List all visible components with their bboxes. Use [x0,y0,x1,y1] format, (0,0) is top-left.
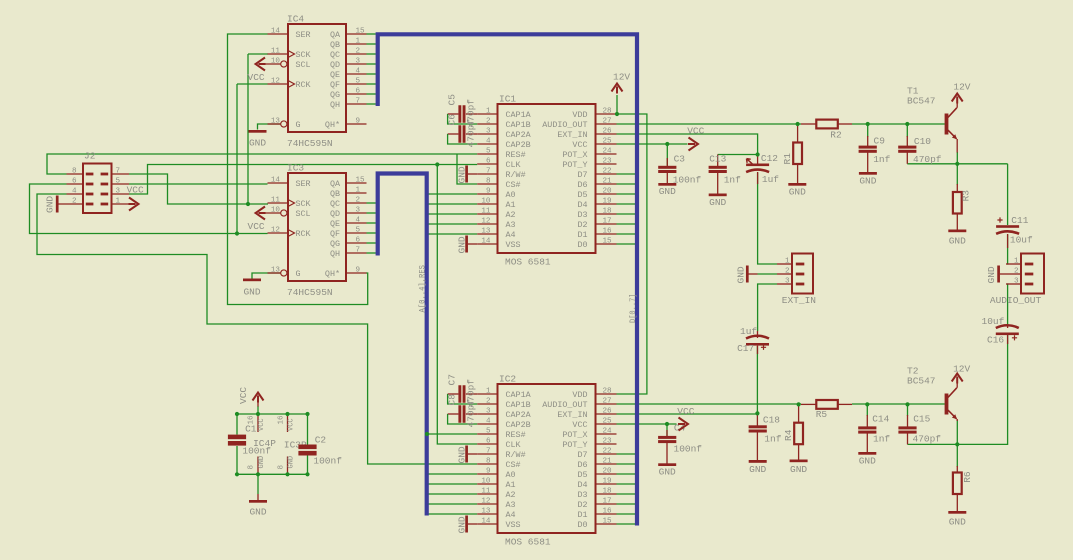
transistor T1 emitter with arrow [948,130,957,139]
svg-text:MOS 6581: MOS 6581 [505,537,551,548]
pin 20 of IC1 [596,193,617,195]
contact dash pin 2 of EXT_IN [796,273,805,276]
svg-text:470pf: 470pf [466,399,477,428]
junction C9 node [866,122,870,126]
svg-text:20: 20 [603,187,613,195]
ground bar at G of IC4 [249,130,267,133]
ground bar below R3 [948,230,966,233]
capacitor C2 plates [298,445,316,456]
pin 22 of IC1 [596,173,617,175]
svg-text:CS#: CS# [506,460,521,470]
capacitor C3 bottom lead [666,172,668,183]
resistor R2 right lead [838,123,852,125]
junction C15 node [905,402,909,406]
svg-text:3: 3 [356,57,361,65]
supply VCC arrow at J2 pin1 [129,198,139,211]
svg-text:R5: R5 [816,409,828,420]
pin 12 of IC1 [477,223,497,225]
supply VCC arrow at IC1 VCC [688,138,698,151]
capacitor C15 plates [898,426,916,433]
svg-text:GND: GND [249,138,266,149]
svg-text:VCC: VCC [572,420,587,430]
pin 2 of J2 [59,203,84,205]
capacitor C16 bottom lead [1007,335,1009,344]
svg-text:RCK: RCK [296,80,312,90]
wire C2 bottom branch [307,456,309,475]
svg-text:1uf: 1uf [740,326,757,337]
svg-text:15: 15 [356,27,366,35]
wire C5 wrap to next pin [448,114,478,124]
svg-text:15: 15 [356,176,366,184]
wire IC4 QD to D bus [367,63,376,65]
wire IC1 D5 to D bus [617,193,636,195]
svg-text:A4: A4 [506,510,516,520]
wire IC2 D7 to D bus [617,453,636,455]
svg-text:22: 22 [603,167,613,175]
wire AUDIO_OUT pin2 to ground bar [1000,273,1006,275]
junction power VCC rail x=287.5 [285,412,289,416]
svg-text:4: 4 [486,137,491,145]
svg-text:470pf: 470pf [466,119,477,148]
pin 17 of IC2 [596,503,617,505]
resistor R6 top lead [956,466,958,473]
pin 5 of IC3 [346,232,367,234]
svg-text:100nf: 100nf [674,443,703,454]
contact dash pin 1 of EXT_IN [796,263,805,266]
wire C12 bottom to EXT_IN pin1 [758,173,777,265]
pin 4 of IC2 [477,423,497,425]
capacitor C9 bottom lead [867,152,869,172]
resistor R1 bottom lead [797,164,799,183]
ground bar at VSS of IC1 [465,236,468,253]
svg-text:A3: A3 [506,500,516,510]
svg-text:A[0..4],RES: A[0..4],RES [418,265,428,313]
svg-text:D7: D7 [577,450,587,460]
svg-text:25: 25 [603,137,613,145]
plus mark of C16 [1012,335,1017,340]
wire C9 node riser [867,124,869,137]
pin 24 of IC2 [596,433,617,435]
wire A bus to IC1 A4 [429,233,478,235]
capacitor C17 polarized plates [746,336,769,346]
inversion bubble SCL of IC4 [281,61,287,67]
pin 9 of IC2 [477,473,497,475]
svg-text:1: 1 [356,186,361,194]
svg-text:12: 12 [481,217,491,225]
ground bar below C14 [858,452,876,455]
wire A bus to IC1 A1 [429,203,478,205]
svg-text:VCC: VCC [248,221,265,232]
svg-text:7: 7 [116,167,121,175]
wire C10 node riser [906,124,908,137]
wire IC1 D3 to D bus [617,213,636,215]
svg-text:GND: GND [749,464,766,475]
supply 12V arrow at IC1 VDD [612,84,623,94]
svg-text:A1: A1 [506,480,516,490]
resistor R5 left lead [801,403,816,405]
svg-text:A4: A4 [506,230,516,240]
ground bar at R/W# of IC2 [465,446,468,463]
svg-text:15: 15 [603,237,613,245]
wire IC2 D3 to D bus [617,493,636,495]
resistor R3 top lead [956,184,958,192]
svg-text:CAP1B: CAP1B [506,400,531,410]
svg-text:1: 1 [116,197,121,205]
resistor R3 bottom lead [956,214,958,230]
svg-text:4: 4 [486,417,491,425]
svg-text:D6: D6 [577,460,587,470]
connector J2 body [83,164,112,214]
pin 5 of J2 [112,183,130,185]
pin 15 of IC3 [346,182,367,184]
clock triangle RCK of IC4 [288,81,295,88]
svg-text:19: 19 [603,197,613,205]
junction CLK net at IC1 [435,162,439,166]
svg-text:GND: GND [790,464,807,475]
ground bar below R4 [790,460,808,463]
bus A[0..4],RES from IC3 outputs to SID address pins [378,174,427,516]
svg-text:C1: C1 [245,424,257,435]
wire net AUDIO1: IC1 AUDIO_OUT to R2 [617,123,802,125]
wire IC1 D7 to D bus [617,173,636,175]
resistor R4 bottom lead [798,444,800,459]
svg-text:10: 10 [481,197,491,205]
pin 14 of IC1 [477,243,497,245]
svg-text:2: 2 [486,117,491,125]
wire A bus RES to IC2 RES# [427,433,477,435]
pin 11 of IC1 [477,213,497,215]
svg-text:RES#: RES# [506,430,526,440]
capacitor C16 polarized plates [996,325,1019,335]
contact dashes row y=194 of J2 [86,193,108,196]
svg-text:R6: R6 [962,471,973,483]
svg-text:R2: R2 [830,129,842,140]
capacitor C12 bottom lead [757,172,759,184]
pin 3 of IC1 [477,133,497,135]
ground bar at G of IC3 [243,279,261,282]
capacitor C5 plates [458,105,465,123]
wire EXT_IN pin2 to GND bar [749,273,758,275]
pin 4 of IC1 [477,143,497,145]
svg-text:3: 3 [356,206,361,214]
junction C14 node [865,402,869,406]
plus mark of C12 [747,159,754,165]
ground bar below C9 [859,172,877,175]
ground bar at EXT_IN pin2 [746,266,749,283]
svg-text:14: 14 [271,176,281,184]
svg-text:GND: GND [949,236,966,247]
svg-text:18: 18 [603,487,613,495]
svg-text:16: 16 [278,415,286,425]
wire net EXT1: C13 top link [718,154,758,156]
wire T1 collector to 12V arrow [956,104,958,108]
capacitor C3 top lead [666,158,668,166]
resistor R5 body [816,400,838,409]
svg-text:16: 16 [603,507,613,515]
svg-text:VDD: VDD [572,110,587,120]
svg-text:C9: C9 [874,135,886,146]
svg-text:CAP2B: CAP2B [506,420,531,430]
pin 26 of IC1 [596,133,617,135]
capacitor C14 plates [858,426,876,433]
svg-text:6: 6 [486,437,491,445]
pin 4 of J2 [67,193,84,195]
resistor R6 bottom lead [956,494,958,511]
wire IC4 QE to D bus [367,73,376,75]
pin 1 of IC1 [477,113,497,115]
svg-text:100nf: 100nf [673,175,702,186]
svg-text:D5: D5 [577,190,587,200]
svg-text:8: 8 [278,465,286,470]
svg-text:GND: GND [457,166,468,183]
capacitor C12 polarized plates [746,164,769,173]
wire A bus to IC1 A3 [429,223,478,225]
svg-text:R3: R3 [961,190,972,202]
plus mark of C17 [761,345,766,350]
inversion bubble G of IC4 [281,121,287,127]
pin 5 of IC2 [477,433,497,435]
svg-text:A0: A0 [506,190,516,200]
junction power GND rail x=307.5 [305,472,309,476]
svg-text:POT_X: POT_X [562,150,587,160]
wire IC4 QC to D bus [367,53,376,55]
svg-text:IC1: IC1 [499,94,516,105]
svg-text:9: 9 [486,467,491,475]
wire IC1 D4 to D bus [617,203,636,205]
svg-text:C6: C6 [447,114,458,126]
pin 7 of J2 [112,173,130,175]
wire net SCK vertical IC4.SCK to IC3.SCK [247,54,249,204]
pin 14 of IC4 [268,33,289,35]
svg-text:QE: QE [330,219,340,229]
pin 2 of IC3 [346,202,367,204]
power pin 8 GND of IC3P [287,457,289,475]
svg-text:C18: C18 [763,415,780,426]
svg-text:470pf: 470pf [913,154,942,165]
svg-text:G: G [296,269,301,279]
capacitor C13 top lead [717,155,719,167]
svg-text:POT_Y: POT_Y [562,440,587,450]
inversion bubble G of IC3 [281,270,287,276]
svg-text:1nf: 1nf [873,434,890,445]
pin 9 of IC4 [346,123,367,125]
pin 22 of IC2 [596,453,617,455]
svg-text:17: 17 [603,217,612,225]
svg-text:D4: D4 [577,200,587,210]
svg-text:VCC: VCC [238,387,249,404]
svg-text:9: 9 [486,187,491,195]
svg-text:D2: D2 [577,500,587,510]
pin 5 of IC4 [346,83,367,85]
wire IC4 QA to D bus [367,33,376,35]
svg-text:28: 28 [603,387,613,395]
wire C11 bottom to AUDIO_OUT pin1 [1007,235,1010,265]
capacitor C10 bottom lead [906,152,908,164]
wire node down to R6 [956,444,958,467]
svg-text:9: 9 [356,266,361,274]
wire net SCK stub to IC4 SCK [248,53,268,55]
svg-text:100nf: 100nf [313,455,342,466]
svg-text:QD: QD [330,209,340,219]
svg-text:CAP1B: CAP1B [506,120,531,130]
pin 6 of IC4 [346,93,367,95]
svg-text:5: 5 [486,427,491,435]
svg-text:10uf: 10uf [1010,234,1033,245]
capacitor C6 right lead [466,133,477,135]
contact dash pin 3 of AUDIO_OUT [1025,283,1034,286]
svg-text:QE: QE [330,70,340,80]
svg-text:100nf: 100nf [242,445,271,456]
supply 12V arrow at T2 collector [952,374,963,384]
contact dashes row y=184 of J2 [86,183,108,186]
resistor R5 right lead [838,403,852,405]
svg-text:GND: GND [457,446,468,463]
pin 23 of IC1 [596,163,617,165]
junction VCC at C3 [665,142,669,146]
wire EXT_IN pin2 to GND [758,273,778,275]
svg-text:A2: A2 [506,210,516,220]
svg-text:R1: R1 [782,153,793,165]
pin 18 of IC2 [596,493,617,495]
svg-text:VSS: VSS [506,240,521,250]
shift register IC4 body 74HC595N [288,24,346,132]
svg-text:10: 10 [271,57,281,65]
svg-text:11: 11 [481,487,491,495]
svg-text:A0: A0 [506,470,516,480]
pin 4 of IC3 [346,222,367,224]
svg-text:2: 2 [356,196,361,204]
power pin 16 VCC of IC4P [257,414,259,432]
svg-text:IC2: IC2 [499,374,516,385]
svg-text:QG: QG [330,239,340,249]
capacitor C11 bottom lead [1007,234,1009,248]
transistor T1 collector [948,108,957,118]
svg-text:11: 11 [481,207,491,215]
svg-text:14: 14 [481,517,491,525]
wire EXT_IN pin3 to C17 [758,284,777,331]
wire T2 emitter to node [956,420,958,444]
svg-text:1nf: 1nf [873,154,890,165]
svg-text:7: 7 [356,246,361,254]
svg-text:CAP2B: CAP2B [506,140,531,150]
wire IC2 D2 to D bus [617,503,636,505]
capacitor C4 bottom lead [666,442,668,463]
wire C2 top branch [307,414,309,445]
svg-text:5: 5 [356,77,361,85]
wire A bus to IC2 A3 [429,503,478,505]
contact dashes row y=204 of J2 [86,203,108,206]
svg-text:4: 4 [356,67,361,75]
wire IC3 G pin to GND [252,273,282,279]
svg-text:R4: R4 [783,429,794,441]
svg-text:24: 24 [603,427,613,435]
svg-text:C10: C10 [914,136,931,147]
wire IC2 D6 to D bus [617,463,636,465]
junction VCC at C4 [665,422,669,426]
svg-text:CAP2A: CAP2A [506,410,532,420]
transistor T2 collector [948,388,957,398]
svg-text:GND: GND [258,456,266,469]
pin 7 of IC1 [477,173,497,175]
bus D[0..7] from IC4 outputs to SID data pins [378,34,637,525]
svg-text:VSS: VSS [506,520,521,530]
wire IC2 D0 to D bus [617,523,636,525]
wire net EXT2: IC2 EXT_IN to C18 node [617,413,758,415]
wire R/W# of IC1 to ground bar [468,173,477,175]
pin 1 of EXT_IN [777,263,792,265]
svg-text:1: 1 [785,257,790,265]
wire net RES: J2 pin8 to IC1 RES# [47,154,477,174]
supply VCC arrow at SCL of IC4 [256,58,266,71]
wire IC4 QG to D bus [367,93,376,95]
svg-text:A3: A3 [506,220,516,230]
svg-text:21: 21 [603,457,613,465]
capacitor C18 top lead [756,413,758,426]
wire IC4 QB to D bus [367,43,376,45]
svg-text:CLK: CLK [506,160,522,170]
svg-text:23: 23 [603,157,613,165]
svg-text:C17: C17 [737,343,754,354]
pin 25 of IC2 [596,423,617,425]
junction power VCC rail x=258 [256,412,260,416]
svg-text:3: 3 [116,187,121,195]
wire net SCK: J2 pin7 to IC3 SCK [129,174,268,204]
transistor T2 emitter with arrow [948,410,957,419]
wire T1 emitter to node [956,152,958,164]
capacitor C5 right lead [466,113,477,115]
wire A bus to IC1 A2 [429,213,478,215]
wire IC4 QF to D bus [367,83,376,85]
pin 12 of IC3 [268,232,289,234]
svg-text:IC4: IC4 [287,14,304,25]
pin 13 of IC4 [268,123,281,125]
pin 12 of IC4 [268,83,289,85]
pin 10 of IC3 [262,212,281,214]
pin 15 of IC1 [596,243,617,245]
svg-text:5: 5 [116,177,121,185]
svg-text:4: 4 [72,187,77,195]
svg-text:CAP1A: CAP1A [506,110,532,120]
svg-text:D[0..7]: D[0..7] [628,294,638,324]
svg-text:D4: D4 [577,480,587,490]
capacitor C17 top lead [757,331,759,338]
ground bar at J2 pin2 [56,196,59,213]
svg-text:QH*: QH* [325,120,340,130]
supply VCC arrow at SCL of IC3 [256,207,266,220]
power pin 16 VCC of IC3P [287,414,289,432]
svg-text:6: 6 [72,177,77,185]
svg-text:11: 11 [271,196,281,204]
svg-text:10uf: 10uf [982,316,1005,327]
capacitor C16 top lead [1007,326,1009,328]
svg-text:QD: QD [330,60,340,70]
svg-text:VCC: VCC [572,140,587,150]
svg-text:21: 21 [603,177,613,185]
ground bar below R1 [788,183,806,186]
pin 17 of IC1 [596,223,617,225]
pin 2 of IC4 [346,53,367,55]
pin 8 of J2 [67,173,84,175]
svg-text:QH: QH [330,249,340,259]
svg-text:VCC: VCC [288,418,296,431]
svg-text:D2: D2 [577,220,587,230]
svg-text:GND: GND [859,175,876,186]
wire IC3 QH to A bus [367,252,376,254]
svg-text:13: 13 [481,507,491,515]
svg-text:6: 6 [486,157,491,165]
svg-text:VDD: VDD [572,390,587,400]
svg-text:10: 10 [481,477,491,485]
